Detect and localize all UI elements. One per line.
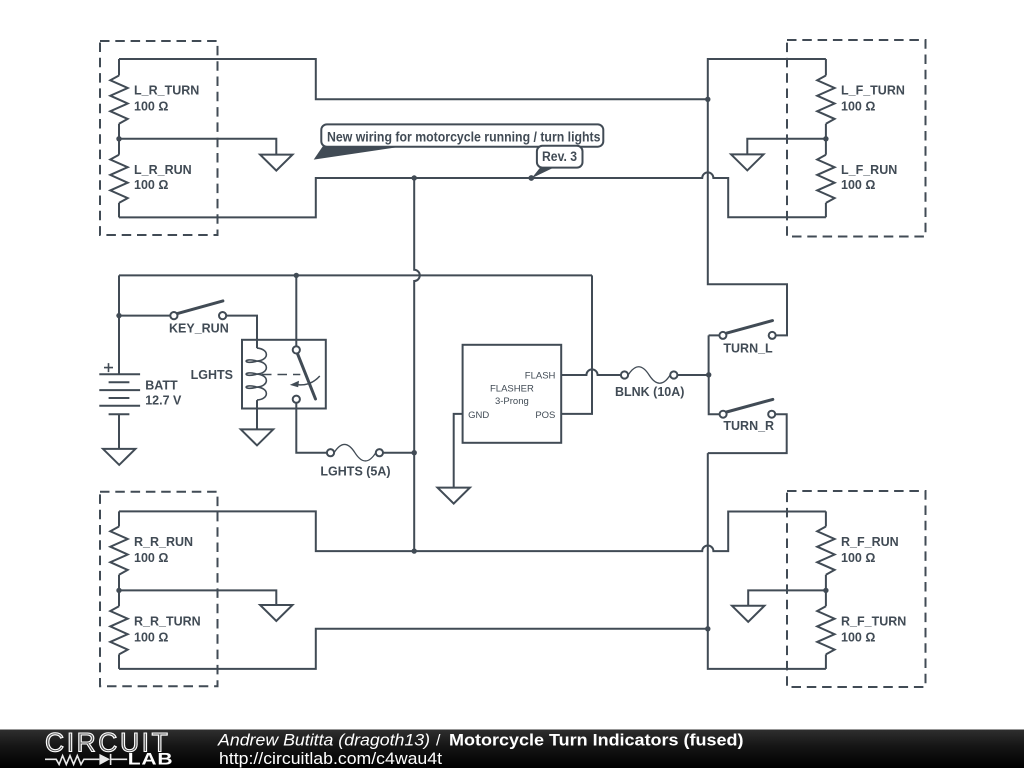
svg-text:POS: POS: [535, 410, 555, 421]
svg-text:FLASH: FLASH: [525, 370, 556, 381]
svg-text:Rev. 3: Rev. 3: [542, 149, 577, 164]
svg-text:GND: GND: [468, 410, 489, 421]
svg-text:FLASHER: FLASHER: [490, 384, 534, 395]
svg-text:L_F_TURN: L_F_TURN: [841, 84, 905, 98]
svg-text:L_F_RUN: L_F_RUN: [841, 163, 897, 177]
svg-text:New wiring for motorcycle runn: New wiring for motorcycle running / turn…: [327, 129, 601, 144]
svg-text:http://circuitlab.com/c4wau4t: http://circuitlab.com/c4wau4t: [219, 750, 442, 768]
svg-text:3-Prong: 3-Prong: [495, 396, 529, 407]
svg-text:L_R_TURN: L_R_TURN: [134, 84, 199, 98]
svg-text:/: /: [436, 732, 441, 749]
svg-text:R_R_RUN: R_R_RUN: [134, 535, 193, 549]
svg-text:R_F_TURN: R_F_TURN: [841, 615, 906, 629]
svg-text:100 Ω: 100 Ω: [134, 100, 168, 114]
svg-text:R_F_RUN: R_F_RUN: [841, 535, 899, 549]
svg-text:Andrew Butitta (dragoth13): Andrew Butitta (dragoth13): [217, 730, 430, 749]
svg-text:12.7 V: 12.7 V: [145, 394, 182, 408]
svg-text:100 Ω: 100 Ω: [134, 631, 168, 645]
svg-text:LGHTS: LGHTS: [191, 368, 233, 382]
svg-text:LAB: LAB: [128, 750, 174, 768]
svg-text:BLNK (10A): BLNK (10A): [615, 385, 684, 399]
svg-text:TURN_L: TURN_L: [723, 341, 773, 355]
svg-text:LGHTS (5A): LGHTS (5A): [320, 464, 390, 478]
svg-text:Motorcycle Turn Indicators (fu: Motorcycle Turn Indicators (fused): [449, 730, 744, 749]
svg-text:100 Ω: 100 Ω: [841, 631, 875, 645]
svg-text:KEY_RUN: KEY_RUN: [169, 321, 229, 335]
svg-text:100 Ω: 100 Ω: [841, 551, 875, 565]
svg-text:100 Ω: 100 Ω: [841, 100, 875, 114]
svg-text:R_R_TURN: R_R_TURN: [134, 615, 201, 629]
svg-text:100 Ω: 100 Ω: [841, 178, 875, 192]
svg-text:100 Ω: 100 Ω: [134, 551, 168, 565]
svg-text:BATT: BATT: [145, 378, 178, 392]
svg-text:100 Ω: 100 Ω: [134, 178, 168, 192]
svg-text:L_R_RUN: L_R_RUN: [134, 163, 192, 177]
svg-text:TURN_R: TURN_R: [723, 419, 774, 433]
